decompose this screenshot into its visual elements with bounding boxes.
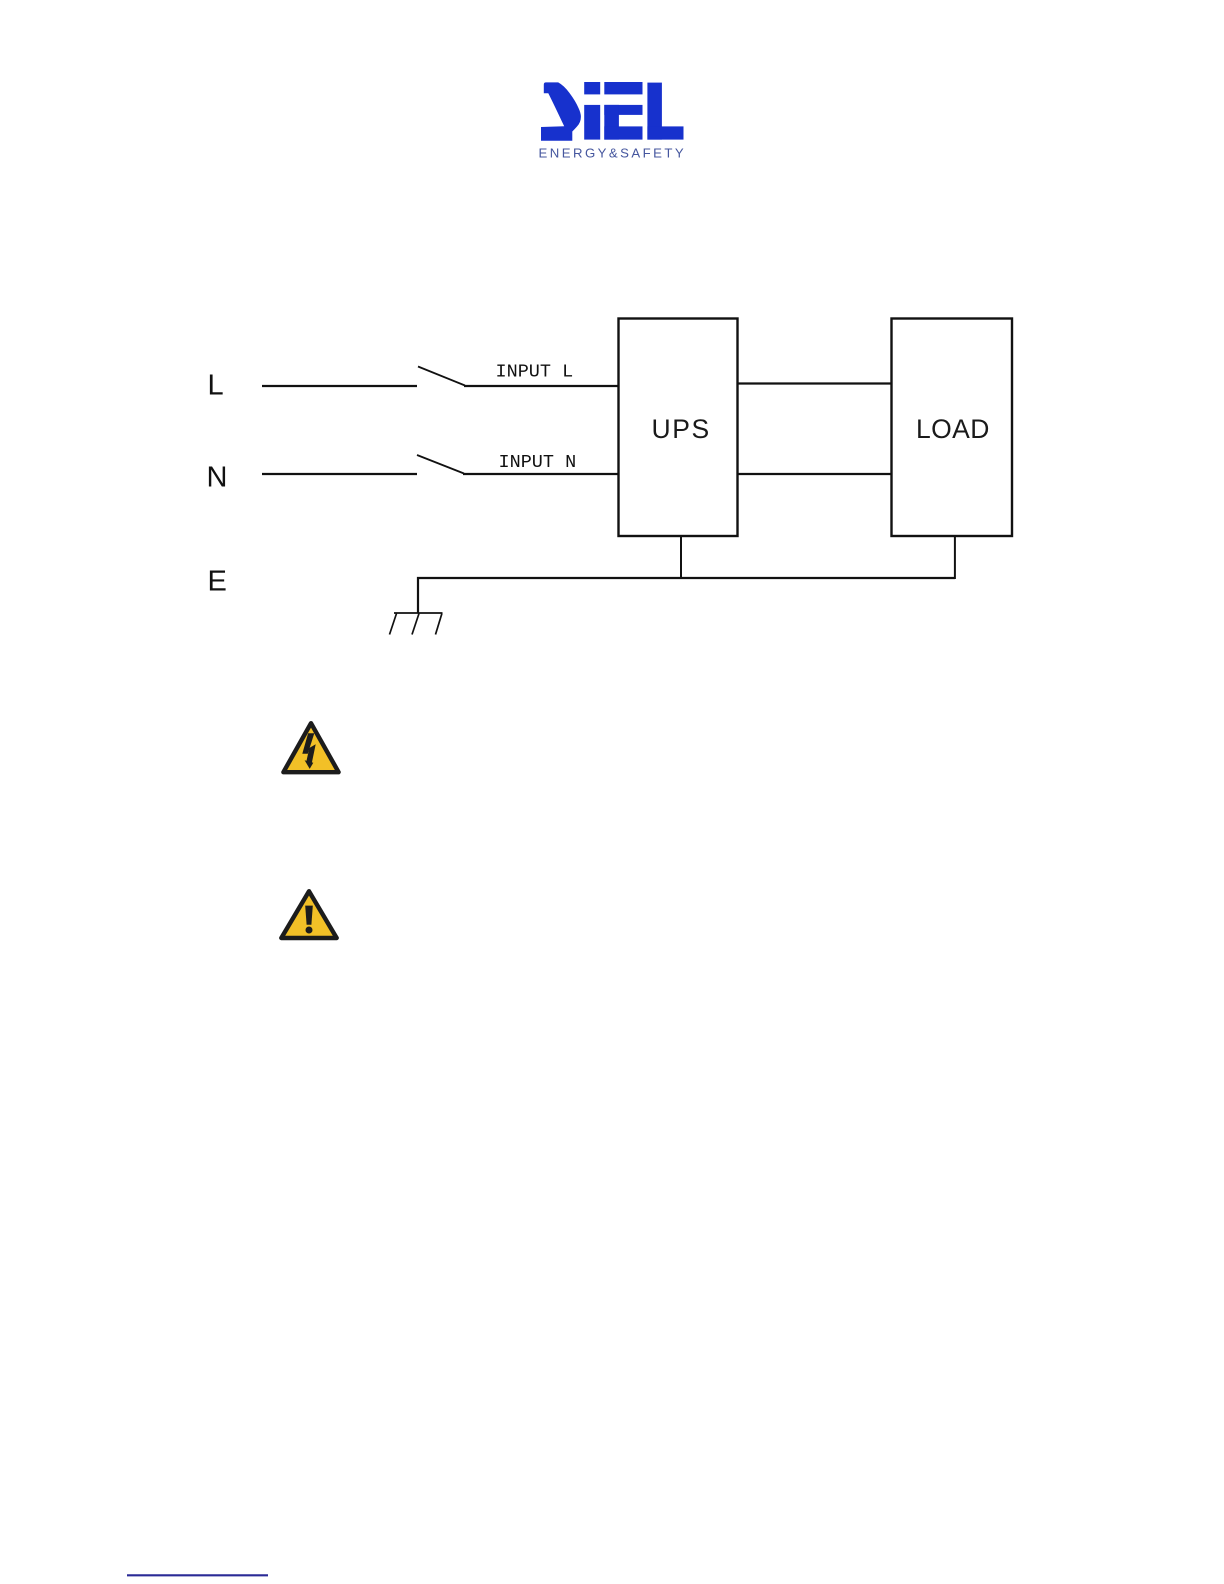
- svg-text:L: L: [208, 369, 224, 401]
- wire L from switch to UPS input: [464, 385, 619, 387]
- switch S2 on line N: [417, 455, 464, 474]
- footer rule: [127, 1574, 268, 1576]
- svg-text:UPS: UPS: [652, 414, 711, 444]
- wire N from node to switch: [262, 473, 417, 475]
- svg-text:LOAD: LOAD: [916, 414, 990, 444]
- node E: [208, 565, 227, 597]
- wire UPS to LOAD upper: [738, 382, 891, 384]
- node L: [208, 369, 224, 401]
- LOAD box: [892, 319, 1013, 537]
- node N: [207, 462, 228, 494]
- logo tagline ENERGY&SAFETY: [539, 146, 687, 161]
- svg-text:INPUT L: INPUT L: [496, 361, 574, 382]
- warning icon W012 electric shock hazard: [283, 723, 338, 772]
- warning icon W001 general caution: [281, 891, 336, 938]
- label LOAD: [916, 414, 990, 444]
- wire UPS earth drop: [680, 536, 682, 578]
- label UPS: [652, 414, 711, 444]
- wire L from node to switch: [262, 385, 417, 387]
- logo SIEL wordmark: [541, 82, 684, 141]
- UPS box: [619, 319, 738, 537]
- label INPUT N: [499, 452, 577, 473]
- svg-text:N: N: [207, 462, 228, 494]
- ground symbol: [390, 613, 443, 635]
- svg-text:INPUT N: INPUT N: [499, 452, 577, 473]
- wire LOAD earth drop: [954, 536, 956, 579]
- wire N from switch to UPS input: [463, 473, 619, 475]
- label INPUT L: [496, 361, 574, 382]
- svg-text:E: E: [208, 565, 227, 597]
- wire UPS to LOAD lower: [738, 473, 891, 475]
- switch S1 on line L: [418, 367, 465, 386]
- svg-text:ENERGY&SAFETY: ENERGY&SAFETY: [539, 146, 687, 161]
- wire earth bus: [418, 578, 955, 613]
